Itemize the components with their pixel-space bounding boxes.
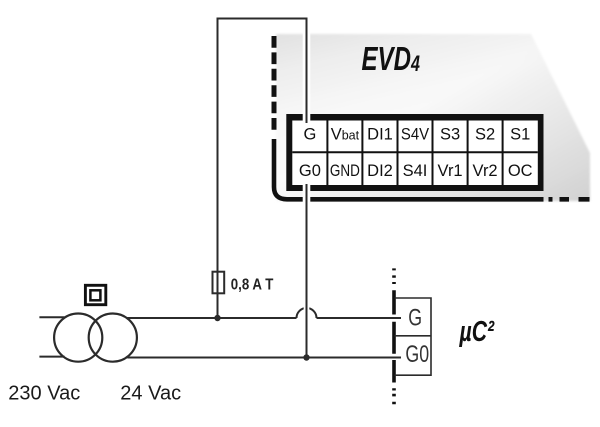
svg-text:GND: GND xyxy=(330,162,360,180)
svg-text:Vr2: Vr2 xyxy=(473,162,498,180)
svg-text:S1: S1 xyxy=(510,125,530,143)
svg-text:0,8 A T: 0,8 A T xyxy=(231,276,274,293)
svg-text:OC: OC xyxy=(508,162,533,180)
svg-text:230 Vac: 230 Vac xyxy=(8,383,80,405)
svg-text:S2: S2 xyxy=(475,125,495,143)
svg-text:G0: G0 xyxy=(299,162,321,180)
svg-text:µC²: µC² xyxy=(459,316,495,348)
svg-text:DI2: DI2 xyxy=(367,162,393,180)
svg-text:Vbat: Vbat xyxy=(331,125,360,143)
svg-text:Vr1: Vr1 xyxy=(438,162,463,180)
svg-text:S4I: S4I xyxy=(403,162,428,180)
svg-text:24 Vac: 24 Vac xyxy=(120,383,181,405)
svg-text:S3: S3 xyxy=(440,125,460,143)
svg-text:G: G xyxy=(303,125,316,143)
svg-text:G0: G0 xyxy=(405,341,429,367)
svg-text:G: G xyxy=(408,305,422,331)
svg-text:DI1: DI1 xyxy=(367,125,393,143)
svg-text:S4V: S4V xyxy=(401,125,429,143)
